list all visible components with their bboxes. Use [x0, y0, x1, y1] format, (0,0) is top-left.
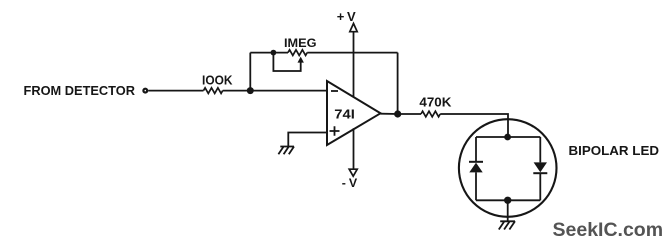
- wire feedback top horizontal left: [250, 52, 288, 54]
- wire LED bridge top: [476, 136, 540, 138]
- wire input terminal to R1: [148, 90, 203, 92]
- U1 non-inverting input marker: [330, 126, 340, 136]
- svg-text:BIPOLAR LED: BIPOLAR LED: [569, 143, 660, 158]
- wire +V to op-amp: [353, 32, 355, 98]
- wire feedback right vertical: [397, 53, 399, 114]
- op-amp U1 741: [327, 81, 381, 145]
- wire R1 to input node: [223, 90, 251, 92]
- svg-text:+V: +V: [337, 9, 358, 24]
- resistor R1 100K: [204, 88, 223, 94]
- LED D1b right diode (pointing down): [533, 137, 547, 200]
- wire feedback left vertical: [249, 53, 251, 91]
- wire input node to op-amp inverting input: [250, 90, 327, 92]
- junction LED top node: [504, 134, 511, 141]
- wire op-amp to -V: [353, 128, 355, 169]
- junction LED bottom node: [504, 197, 511, 204]
- ground at LED: [499, 221, 515, 229]
- potentiometer R2 1MEG: [288, 50, 307, 56]
- junction feedback wiper node: [271, 50, 277, 56]
- svg-text:IOOK: IOOK: [202, 73, 233, 88]
- wire LED bottom to ground: [507, 200, 509, 221]
- bipolar LED enclosure circle: [459, 119, 557, 217]
- svg-text:FROM DETECTOR: FROM DETECTOR: [24, 83, 136, 98]
- wire output node to R3: [398, 113, 421, 115]
- junction input node: [247, 87, 254, 94]
- wire feedback top horizontal right: [307, 52, 397, 54]
- wire op-amp output: [381, 113, 399, 115]
- -V terminal arrow: [349, 169, 357, 176]
- input terminal: [143, 89, 147, 93]
- wire R3 to LED top: [440, 114, 508, 137]
- svg-text:74I: 74I: [334, 106, 355, 121]
- U1 inverting input marker: [331, 90, 338, 92]
- LED D1a left diode (pointing up): [469, 137, 483, 200]
- svg-text:-V: -V: [342, 176, 360, 190]
- svg-text:IMEG: IMEG: [284, 38, 317, 50]
- junction output node: [394, 110, 401, 117]
- svg-text:470K: 470K: [419, 96, 451, 110]
- svg-text:SeekIC.com: SeekIC.com: [553, 219, 664, 241]
- wire LED bridge bottom: [476, 199, 540, 201]
- resistor R3 470K: [421, 111, 440, 117]
- R2 wiper arrowhead: [298, 57, 304, 63]
- +V terminal arrow: [350, 24, 357, 32]
- ground at op-amp non-inverting input: [278, 147, 294, 155]
- R2 wiper arm loop: [273, 53, 300, 71]
- wire non-inverting input to ground: [288, 133, 327, 147]
